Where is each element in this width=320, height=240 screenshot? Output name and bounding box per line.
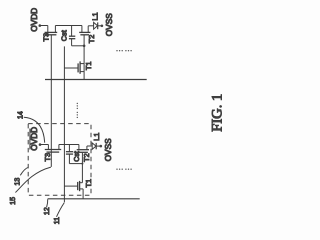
transistor T1 top — [64, 61, 84, 73]
ellipsis right of row n — [116, 50, 132, 51]
ellipsis between rows — [77, 103, 78, 118]
svg-text:OVSS: OVSS — [103, 138, 113, 162]
svg-text:14: 14 — [18, 111, 25, 119]
wire OVDD to T3 — [40, 25, 48, 27]
bus B2 (T1 gates) — [63, 46, 65, 202]
svg-text:OVSS: OVSS — [104, 13, 114, 37]
wire storage node to T1 bottom — [81, 164, 83, 183]
svg-text:FIG. 1: FIG. 1 — [209, 94, 225, 132]
wire OVDD to T3 bottom — [40, 144, 48, 146]
wire T3 to T2 bottom — [59, 144, 79, 146]
node dot OVDD bottom — [39, 143, 42, 146]
leader 11 — [57, 203, 65, 217]
wire T3 to T2 — [55, 25, 82, 27]
svg-text:T2: T2 — [82, 153, 91, 162]
svg-text:L1: L1 — [92, 133, 101, 141]
row line n — [45, 79, 147, 81]
leader 13 — [20, 167, 28, 175]
leader 15 — [15, 167, 51, 192]
transistor T2 top — [79, 26, 90, 46]
svg-text:T3: T3 — [43, 153, 52, 162]
leader 14 — [24, 117, 45, 142]
svg-text:OVDD: OVDD — [29, 127, 39, 151]
label OVDD bottom overline — [29, 129, 31, 150]
leader 12 — [47, 199, 48, 207]
svg-text:T1: T1 — [84, 61, 93, 70]
node dot OVSS bottom — [100, 145, 103, 148]
svg-text:12: 12 — [44, 207, 51, 215]
node dot OVDD top — [39, 24, 42, 27]
node dot OVSS top — [101, 25, 104, 28]
transistor T3 bottom — [45, 145, 61, 153]
wire T2 to L1 — [88, 25, 93, 27]
svg-text:OVDD: OVDD — [29, 8, 39, 32]
node dot T2 gate — [83, 45, 86, 48]
scan bus B1 (T3 gates) — [50, 35, 52, 167]
svg-text:11: 11 — [54, 217, 61, 224]
capacitor Cst bottom — [66, 145, 83, 164]
ellipsis right of row n+1 — [116, 169, 132, 170]
transistor T1 bottom — [64, 181, 83, 199]
dashed pixel box — [28, 124, 91, 196]
svg-text:L1: L1 — [91, 12, 100, 20]
wire T2 to L1 bottom — [87, 145, 92, 147]
svg-text:T2: T2 — [87, 35, 96, 44]
svg-text:15: 15 — [10, 197, 17, 205]
capacitor Cst top — [69, 26, 84, 46]
row line n+1 — [48, 198, 140, 200]
transistor T3 top — [45, 26, 58, 35]
svg-text:T3: T3 — [42, 33, 51, 42]
wire storage node down to T1 — [83, 46, 85, 80]
OLED L1 top — [94, 22, 102, 29]
transistor T2 bottom — [77, 145, 89, 164]
svg-text:Cst: Cst — [60, 30, 69, 41]
OLED L1 bottom — [92, 143, 100, 149]
svg-text:T1: T1 — [84, 179, 93, 188]
svg-text:13: 13 — [14, 178, 21, 186]
junction dot Cst/T2 gate bottom — [81, 163, 83, 165]
